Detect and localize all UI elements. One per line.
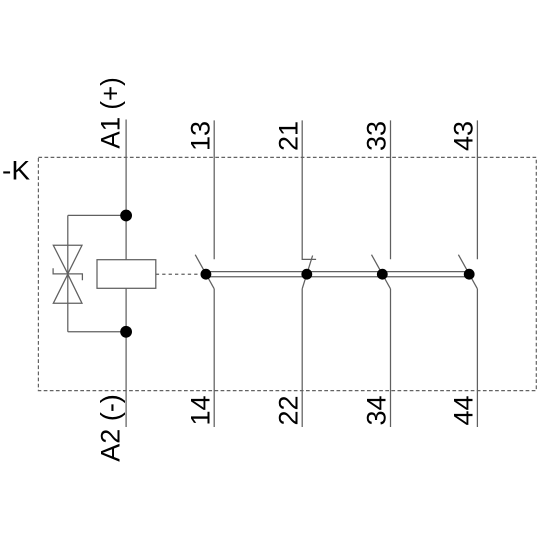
svg-text:14: 14: [185, 396, 215, 426]
svg-text:43: 43: [449, 121, 479, 151]
svg-text:44: 44: [449, 396, 479, 426]
svg-text:21: 21: [273, 121, 303, 151]
svg-text:34: 34: [362, 396, 392, 426]
svg-text:13: 13: [185, 121, 215, 151]
svg-text:-K: -K: [2, 155, 30, 185]
svg-text:22: 22: [273, 396, 303, 426]
svg-text:A1 (+): A1 (+): [96, 77, 126, 148]
svg-text:A2 (-): A2 (-): [96, 394, 126, 462]
svg-text:33: 33: [362, 121, 392, 151]
